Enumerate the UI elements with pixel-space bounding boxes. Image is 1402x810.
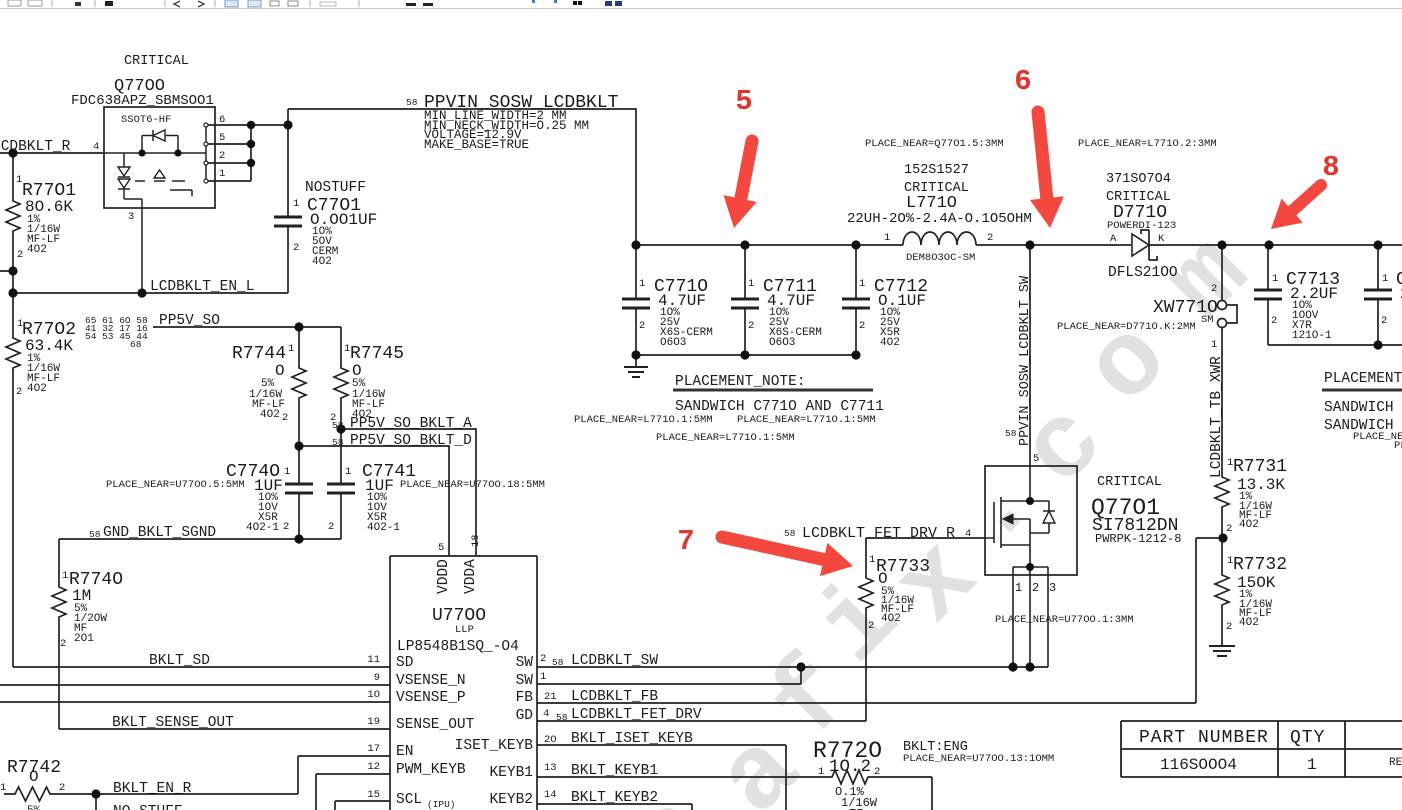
svg-text:R7745: R7745 (350, 344, 404, 364)
svg-text:5: 5 (219, 132, 225, 144)
svg-text:SW: SW (516, 673, 534, 689)
svg-text:1: 1 (639, 278, 645, 290)
svg-text:1: 1 (1382, 273, 1388, 285)
svg-text:QTY: QTY (1290, 728, 1325, 748)
svg-text:PP5V_SO: PP5V_SO (159, 313, 220, 329)
svg-text:1: 1 (884, 232, 890, 244)
svg-text:SANDWICH C7713 AND C7714: SANDWICH C7713 AND C7714 (1324, 400, 1402, 416)
svg-text:2: 2 (219, 150, 225, 162)
svg-text:PLACE_NEAR=D771O.K:2MM: PLACE_NEAR=D771O.K:2MM (1057, 321, 1196, 333)
svg-text:2: 2 (16, 386, 22, 398)
svg-text:EN: EN (396, 744, 413, 760)
svg-text:PP5V_SO_BKLT_D: PP5V_SO_BKLT_D (350, 433, 472, 449)
svg-text:4O2: 4O2 (27, 383, 47, 395)
svg-text:PWM_KEYB: PWM_KEYB (396, 762, 466, 778)
svg-text:PPVIN_SOSW_LCDBKLT_SW: PPVIN_SOSW_LCDBKLT_SW (1018, 275, 1033, 446)
svg-text:LCDBKLT_FET_DRV: LCDBKLT_FET_DRV (571, 707, 702, 723)
svg-text:LCDBKLT_FB: LCDBKLT_FB (571, 689, 658, 705)
svg-text:4O2: 4O2 (260, 409, 280, 421)
svg-text:58: 58 (552, 657, 564, 668)
svg-text:FB: FB (516, 690, 534, 706)
svg-text:LCDBKLT_TB_XWR: LCDBKLT_TB_XWR (1209, 356, 1225, 478)
svg-text:22UH-2O%-2.4A-O.1O5OHM: 22UH-2O%-2.4A-O.1O5OHM (847, 211, 1032, 227)
svg-text:SANDWICH C771O AND C7711: SANDWICH C771O AND C7711 (675, 399, 884, 415)
svg-text:4O2: 4O2 (312, 256, 332, 268)
svg-text:1: 1 (540, 671, 546, 683)
svg-text:A: A (1110, 233, 1117, 245)
svg-text:1: 1 (62, 570, 68, 582)
svg-text:2O1: 2O1 (74, 633, 94, 645)
svg-text:58: 58 (89, 529, 101, 540)
svg-text:BKLT_EN_R: BKLT_EN_R (113, 781, 192, 797)
svg-text:4: 4 (965, 528, 971, 540)
svg-text:O: O (275, 362, 285, 380)
svg-text:1O: 1O (367, 689, 380, 701)
svg-text:58: 58 (784, 528, 796, 539)
svg-text:VSENSE_P: VSENSE_P (396, 690, 466, 706)
svg-text:58: 58 (556, 712, 568, 723)
svg-text:NOSTUFF: NOSTUFF (305, 180, 366, 196)
svg-text:2: 2 (1211, 283, 1217, 295)
svg-text:LCDBKLT_FET_DRV_R: LCDBKLT_FET_DRV_R (802, 525, 955, 542)
svg-text:3: 3 (128, 211, 134, 223)
svg-text:4O2: 4O2 (881, 613, 901, 625)
svg-text:O6O3: O6O3 (660, 337, 686, 349)
svg-text:1: 1 (818, 766, 824, 778)
svg-text:2: 2 (293, 242, 299, 254)
svg-text:5: 5 (438, 542, 444, 554)
svg-text:1O.2: 1O.2 (829, 757, 871, 777)
svg-text:R7744: R7744 (232, 344, 286, 364)
svg-text:58: 58 (1005, 428, 1017, 439)
svg-text:4O2: 4O2 (880, 337, 900, 349)
svg-text:SENSE_OUT: SENSE_OUT (396, 717, 475, 733)
svg-text:18: 18 (470, 534, 482, 547)
svg-text:4O2: 4O2 (1239, 617, 1259, 629)
svg-text:o: o (1064, 300, 1194, 430)
svg-text:K: K (1158, 233, 1165, 245)
svg-text:KEYB1: KEYB1 (489, 765, 533, 781)
svg-text:CRITICAL: CRITICAL (1097, 475, 1162, 490)
svg-text:1: 1 (1015, 581, 1022, 595)
svg-text:POWERDI-123: POWERDI-123 (1107, 220, 1176, 232)
svg-text:SW: SW (516, 655, 534, 671)
svg-text:8: 8 (1322, 151, 1339, 184)
svg-text:VDDD: VDDD (436, 559, 452, 594)
svg-text:11: 11 (367, 654, 380, 666)
svg-text:BKLT_SENSE_OUT: BKLT_SENSE_OUT (112, 715, 234, 731)
svg-text:2: 2 (859, 320, 865, 332)
svg-text:4O2: 4O2 (27, 244, 47, 256)
svg-text:6: 6 (219, 114, 225, 126)
svg-text:1: 1 (1307, 756, 1317, 774)
svg-text:1: 1 (1211, 339, 1217, 351)
svg-text:1: 1 (0, 782, 6, 794)
svg-text:2: 2 (59, 782, 65, 794)
svg-text:U77OO: U77OO (432, 606, 486, 626)
svg-text:121O-1: 121O-1 (1292, 330, 1332, 342)
svg-text:PLACEMENT_NOTE:: PLACEMENT_NOTE: (1324, 371, 1402, 387)
svg-text:BKLT_KEYB1: BKLT_KEYB1 (571, 763, 658, 779)
svg-text:NO_STUFF: NO_STUFF (113, 804, 183, 810)
svg-text:PLACE_NEAR=U77OO.13:1OMM: PLACE_NEAR=U77OO.13:1OMM (903, 753, 1054, 765)
svg-text:GND_BKLT_SGND: GND_BKLT_SGND (103, 525, 216, 541)
svg-text:PLACE_NEAR=L771O.1:5MM: PLACE_NEAR=L771O.1:5MM (574, 414, 713, 426)
svg-text:152S1527: 152S1527 (904, 163, 969, 178)
svg-text:PLACE_NEAR=U77OO.1:3MM: PLACE_NEAR=U77OO.1:3MM (995, 614, 1134, 626)
svg-text:SCL: SCL (396, 792, 422, 808)
svg-text:LCDBKLT_SW: LCDBKLT_SW (571, 653, 658, 669)
svg-text:2: 2 (540, 653, 546, 665)
svg-text:2: 2 (282, 412, 288, 424)
svg-text:LCDBKLT_EN_L: LCDBKLT_EN_L (150, 279, 254, 295)
svg-text:PWRPK-1212-8: PWRPK-1212-8 (1095, 532, 1181, 546)
svg-text:DEM8O3OC-SM: DEM8O3OC-SM (906, 252, 975, 264)
svg-text:2O: 2O (544, 734, 557, 746)
svg-text:4O2-1: 4O2-1 (246, 522, 279, 534)
svg-text:2: 2 (283, 521, 289, 533)
svg-text:2: 2 (874, 766, 880, 778)
svg-text:9: 9 (374, 672, 380, 684)
svg-text:1: 1 (1272, 273, 1278, 285)
svg-text:4: 4 (543, 708, 549, 720)
svg-text:1: 1 (293, 198, 299, 210)
svg-text:4: 4 (93, 141, 99, 153)
svg-text:2: 2 (1226, 621, 1232, 633)
svg-text:LP8548B1SQ_-O4: LP8548B1SQ_-O4 (397, 639, 519, 655)
svg-text:MAKE_BASE=TRUE: MAKE_BASE=TRUE (424, 138, 529, 152)
svg-text:PART NUMBER: PART NUMBER (1139, 728, 1269, 748)
svg-text:PL: PL (1394, 440, 1402, 452)
svg-text:R7732: R7732 (1233, 555, 1287, 575)
svg-text:PLACEMENT_NOTE:: PLACEMENT_NOTE: (675, 374, 806, 390)
svg-text:LCDBKLT_R: LCDBKLT_R (0, 139, 71, 155)
svg-text:O: O (29, 768, 39, 786)
svg-text:5: 5 (735, 85, 752, 118)
svg-text:SD: SD (396, 655, 413, 671)
svg-text:KEYB2: KEYB2 (489, 792, 533, 808)
svg-text:VDDA: VDDA (463, 559, 479, 594)
svg-text:LLP: LLP (455, 624, 474, 636)
svg-text:PLACE_NEAR=Q77O1.5:3MM: PLACE_NEAR=Q77O1.5:3MM (865, 138, 1004, 150)
svg-text:DFLS21OO: DFLS21OO (1108, 265, 1178, 281)
svg-text:4O2-1: 4O2-1 (367, 522, 400, 534)
svg-text:58: 58 (332, 420, 344, 431)
svg-text:19: 19 (367, 716, 380, 728)
svg-text:2: 2 (748, 320, 754, 332)
svg-text:1: 1 (859, 278, 865, 290)
svg-text:1: 1 (869, 554, 875, 566)
svg-text:3: 3 (1049, 581, 1056, 595)
svg-text:116SOOO4: 116SOOO4 (1160, 756, 1237, 774)
svg-text:2: 2 (1271, 315, 1277, 327)
svg-text:SM: SM (1201, 314, 1214, 326)
svg-text:2: 2 (60, 638, 66, 650)
svg-text:15: 15 (367, 789, 380, 801)
svg-text:RE: RE (1389, 757, 1402, 769)
svg-text:12: 12 (367, 761, 380, 773)
svg-text:FDC638APZ_SBMSOO1: FDC638APZ_SBMSOO1 (71, 93, 214, 109)
svg-text:2: 2 (639, 320, 645, 332)
svg-text:371SO7O4: 371SO7O4 (1106, 172, 1171, 187)
svg-text:O6O3: O6O3 (769, 337, 795, 349)
svg-text:(IPU): (IPU) (427, 799, 456, 810)
svg-text:5: 5 (1033, 453, 1039, 465)
svg-text:68: 68 (130, 339, 142, 350)
svg-text:17: 17 (367, 743, 380, 755)
svg-text:1: 1 (284, 466, 290, 478)
svg-text:PLACE_NEAR=L771O.1:5MM: PLACE_NEAR=L771O.1:5MM (656, 432, 795, 444)
svg-text:PLACE_NEAR=L771O.2:3MM: PLACE_NEAR=L771O.2:3MM (1078, 138, 1217, 150)
svg-text:1: 1 (219, 168, 225, 180)
svg-text:2: 2 (1381, 315, 1387, 327)
svg-text:PLACE_NEAR=U77OO.5:5MM: PLACE_NEAR=U77OO.5:5MM (106, 479, 245, 491)
svg-text:58: 58 (406, 97, 418, 108)
svg-text:2: 2 (1032, 581, 1039, 595)
svg-text:GD: GD (516, 708, 533, 724)
svg-text:2: 2 (868, 620, 874, 632)
svg-text:13: 13 (544, 762, 557, 774)
svg-text:2: 2 (987, 232, 993, 244)
svg-text:21: 21 (544, 691, 557, 703)
svg-text:ISET_KEYB: ISET_KEYB (455, 738, 534, 754)
svg-text:7: 7 (677, 525, 694, 558)
svg-text:BKLT_SD: BKLT_SD (149, 653, 210, 669)
svg-text:BKLT_ISET_KEYB: BKLT_ISET_KEYB (571, 731, 693, 747)
svg-text:2: 2 (328, 521, 334, 533)
svg-text:1: 1 (345, 466, 351, 478)
svg-text:SSOT6-HF: SSOT6-HF (121, 114, 171, 126)
svg-text:PLACE_NEAR=L771O.1:5MM: PLACE_NEAR=L771O.1:5MM (737, 414, 876, 426)
svg-text:1: 1 (748, 278, 754, 290)
svg-text:BKLT_KEYB2: BKLT_KEYB2 (571, 790, 658, 806)
svg-text:2: 2 (17, 249, 23, 261)
svg-text:14: 14 (544, 789, 557, 801)
svg-text:6: 6 (1014, 65, 1031, 98)
svg-text:2: 2 (1226, 523, 1232, 535)
svg-text:CRITICAL: CRITICAL (124, 54, 189, 69)
svg-text:PLACE_NEAR=U77OO.18:5MM: PLACE_NEAR=U77OO.18:5MM (400, 479, 545, 491)
svg-text:VSENSE_N: VSENSE_N (396, 673, 466, 689)
svg-text:R7731: R7731 (1233, 457, 1287, 477)
svg-text:PP5V_SO_BKLT_A: PP5V_SO_BKLT_A (350, 416, 472, 432)
svg-text:4O2: 4O2 (1239, 519, 1259, 531)
svg-text:5%: 5% (27, 805, 41, 810)
svg-text:1: 1 (288, 343, 294, 355)
svg-text:58: 58 (332, 437, 344, 448)
